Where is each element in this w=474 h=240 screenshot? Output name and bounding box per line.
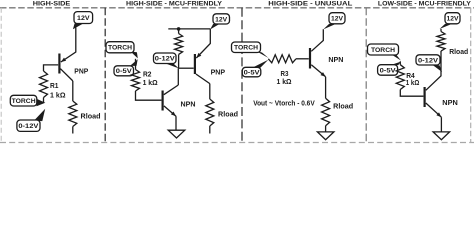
net label 0-5V (panel 3): [242, 60, 268, 77]
label Rload (panel 1): [81, 113, 101, 120]
net label 0-5V (panel 4): [378, 62, 401, 76]
svg-text:LOW-SIDE - MCU-FRIENDLY: LOW-SIDE - MCU-FRIENDLY: [378, 0, 471, 7]
svg-text:1 kΩ: 1 kΩ: [406, 80, 420, 87]
net label Vout (panel 3): [253, 100, 315, 107]
wire 12V to Rload (panel 4): [440, 29, 442, 32]
svg-text:0-12V: 0-12V: [155, 56, 176, 63]
power label 12V (panel 1): [73, 12, 93, 30]
transistor Q5 NPN (panel 4): [425, 87, 442, 117]
resistor Rload (panel 1): [69, 101, 77, 127]
svg-text:1 kΩ: 1 kΩ: [277, 79, 292, 86]
ground (panel 3): [317, 132, 334, 140]
resistor Rload (panel 3): [322, 98, 330, 125]
svg-text:TORCH: TORCH: [371, 47, 395, 54]
wire 12V to Q4 collector: [311, 29, 323, 51]
svg-text:R3: R3: [281, 71, 289, 78]
svg-text:NPN: NPN: [442, 100, 458, 107]
resistor Rload (panel 2): [206, 99, 214, 126]
wire Rload to Q5 collector (panel 4): [426, 51, 441, 90]
svg-text:Vout ~ Vtorch - 0.6V: Vout ~ Vtorch - 0.6V: [253, 100, 315, 107]
wire Q1 base to R1: [44, 65, 59, 71]
ground (panel 4): [433, 132, 450, 140]
svg-text:Rload: Rload: [81, 113, 101, 120]
svg-text:R4: R4: [406, 73, 415, 80]
svg-text:1 kΩ: 1 kΩ: [143, 80, 158, 87]
net label 0-12V (panel 4): [416, 55, 442, 72]
net label 0-5V (panel 2): [114, 59, 138, 76]
input label TORCH (panel 4): [368, 44, 401, 61]
wire 12V to Q1 emitter: [61, 28, 76, 63]
svg-text:HIGH-SIDE: HIGH-SIDE: [33, 0, 71, 7]
label R2 value 1 kOhm: [143, 72, 158, 88]
net label 0-12V (panel 2): [154, 53, 179, 68]
input label TORCH (panel 1): [10, 95, 45, 106]
label NPN (panel 3): [328, 57, 343, 64]
label PNP (panel 1): [74, 69, 88, 76]
svg-text:0-5V: 0-5V: [380, 67, 397, 74]
label NPN (panel 2): [181, 101, 196, 108]
resistor R3: [268, 55, 296, 63]
power label 12V (panel 4): [440, 13, 461, 29]
label R4 value 1 kOhm: [406, 73, 420, 87]
label R3 value 1 kOhm: [277, 71, 292, 86]
wire rail to pull-up resistor: [178, 29, 180, 34]
resistor Rload (panel 4): [437, 32, 445, 52]
resistor pull-up (panel 2): [175, 34, 183, 55]
svg-text:HIGH-SIDE - UNUSUAL: HIGH-SIDE - UNUSUAL: [268, 0, 352, 7]
wire emitter 12V to Q3 (panel 2): [196, 29, 210, 58]
wire Q2 collector to base node: [177, 68, 179, 85]
svg-text:0-12V: 0-12V: [418, 57, 439, 64]
wire R1 to TORCH node: [43, 98, 45, 103]
label R1 value 1 kOhm: [50, 83, 66, 99]
power label 12V (panel 3): [323, 13, 345, 30]
wire Q3 collector to Rload (panel 2): [209, 84, 211, 99]
svg-text:NPN: NPN: [328, 57, 343, 64]
ground (panel 2): [168, 130, 185, 138]
wire R4 to Q5 base: [400, 90, 423, 97]
wire Q1 collector to Rload (panel 1): [72, 81, 74, 101]
svg-text:HIGH-SIDE - MCU-FRIENDLY: HIGH-SIDE - MCU-FRIENDLY: [126, 0, 222, 7]
input label TORCH (panel 3): [232, 42, 269, 58]
svg-text:Rload: Rload: [218, 111, 238, 118]
resistor R1: [40, 71, 48, 97]
label Rload (panel 4): [449, 49, 468, 56]
svg-text:1 kΩ: 1 kΩ: [50, 93, 66, 100]
wire R2 to Q2 base: [136, 91, 162, 100]
resistor R4: [396, 65, 404, 90]
input label TORCH (panel 2): [106, 42, 138, 59]
resistor R2: [132, 70, 140, 92]
wire R3 to Q4 base: [296, 58, 309, 60]
svg-text:R2: R2: [143, 72, 152, 79]
transistor Q3 PNP (panel 2): [195, 53, 210, 84]
transistor Q4 NPN (panel 3): [310, 48, 326, 77]
svg-text:12V: 12V: [447, 16, 460, 23]
wire Rload bottom stub (panel 2): [209, 126, 211, 134]
net label 0-12V (panel 1): [17, 109, 45, 132]
svg-text:PNP: PNP: [211, 69, 226, 76]
junction dot rail/pull-up (panel 2): [177, 27, 181, 31]
svg-text:TORCH: TORCH: [108, 45, 132, 52]
power label 12V (panel 2): [210, 14, 229, 30]
label Rload (panel 3): [333, 103, 353, 110]
svg-text:0-5V: 0-5V: [116, 68, 133, 75]
svg-text:12V: 12V: [215, 16, 228, 23]
svg-text:NPN: NPN: [181, 101, 196, 108]
svg-text:TORCH: TORCH: [12, 98, 36, 105]
wire Q5 emitter to ground (panel 4): [440, 117, 442, 132]
svg-text:0-12V: 0-12V: [18, 123, 39, 130]
svg-text:PNP: PNP: [74, 69, 88, 76]
transistor Q1 PNP (panel 1): [59, 54, 72, 81]
svg-text:R1: R1: [50, 83, 59, 90]
wire Q4 emitter to Rload (panel 3): [325, 77, 327, 99]
wire Q2 emitter to ground: [175, 116, 177, 130]
svg-text:TORCH: TORCH: [234, 45, 258, 52]
svg-text:12V: 12V: [331, 16, 344, 23]
svg-text:12V: 12V: [77, 15, 90, 22]
svg-text:Rload: Rload: [333, 103, 353, 110]
wire TORCH node to R4: [399, 61, 401, 64]
svg-text:Rload: Rload: [449, 49, 468, 56]
svg-text:0-5V: 0-5V: [244, 70, 261, 77]
wire Rload bottom stub (panel 1): [72, 127, 74, 134]
wire Rload to ground (panel 3): [325, 126, 327, 132]
label Rload (panel 2): [218, 111, 238, 118]
wire base node to Q3 base (panel 2): [179, 67, 194, 69]
label PNP (panel 2): [211, 69, 226, 76]
wire TORCH node to R2: [135, 59, 137, 70]
wire 12V supply rail (panel 2): [168, 28, 210, 30]
wire pull-up to base node (panel 2): [178, 55, 180, 69]
transistor Q2 NPN (panel 2): [163, 85, 179, 116]
label NPN (panel 4): [442, 100, 458, 107]
